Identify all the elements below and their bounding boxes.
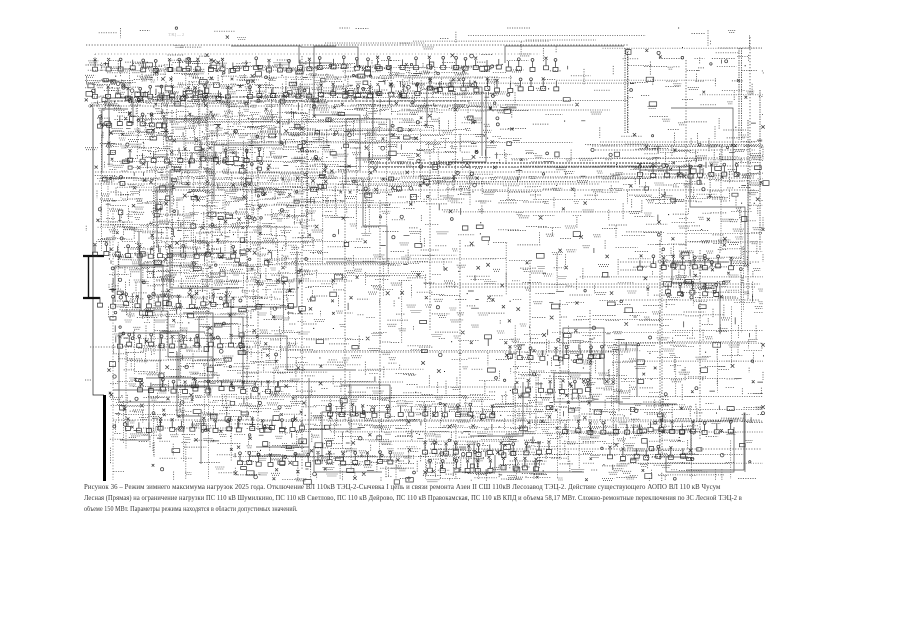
capacitor: left bracket bar <box>88 256 90 298</box>
node: texture long vertical wires <box>101 73 748 479</box>
bus: top band underline <box>110 97 470 101</box>
generator symbols: circles <box>92 27 765 480</box>
node dots <box>101 28 764 477</box>
wire: short horizontal segments <box>85 28 763 480</box>
bus: main horizontal dotted buses <box>88 106 762 449</box>
caption line 1 <box>84 484 720 491</box>
caption line 3 <box>84 506 298 513</box>
wire: dotted right riser <box>749 37 751 210</box>
wire: top right corner dotted <box>718 47 762 49</box>
transformer symbols: small boxes <box>86 50 769 485</box>
node: texture long horizontal wires <box>97 36 763 475</box>
label: top station name <box>168 32 184 37</box>
label squiggles <box>85 30 764 481</box>
wire: dotted inner top <box>95 54 540 62</box>
wire: solid staircase runs <box>102 46 745 472</box>
bus: dark double line center <box>370 163 660 167</box>
caption line 2 <box>84 495 742 502</box>
wire: solid stubs <box>103 60 763 481</box>
bus: vertical dotted feeders <box>167 56 700 470</box>
capacitor: left bracket caps <box>83 256 104 298</box>
breaker marks: X symbols <box>85 36 765 482</box>
bus: thick left lower bar <box>103 395 106 481</box>
bus: zipper vertical right pair <box>625 48 760 300</box>
wire: left dotted guide <box>112 205 114 480</box>
wire: dotted frame top <box>86 45 628 133</box>
wire: short vertical segments <box>86 28 763 481</box>
transformer rows <box>93 56 740 473</box>
wire: left border <box>93 108 104 395</box>
